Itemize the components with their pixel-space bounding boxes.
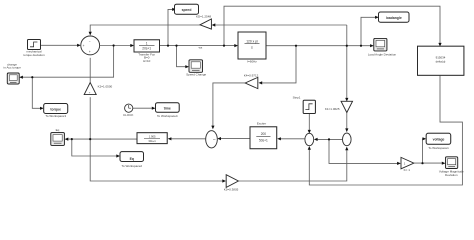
svg-text:CLOCK: CLOCK <box>123 113 133 117</box>
svg-text:voltage: voltage <box>433 138 445 142</box>
svg-text:K= 1: K= 1 <box>404 168 411 172</box>
svg-text:+: + <box>89 50 91 54</box>
svg-text:200: 200 <box>261 132 267 136</box>
svg-text:KD=1.2548: KD=1.2548 <box>196 14 211 18</box>
svg-text:20s+1: 20s+1 <box>142 47 151 51</box>
svg-text:Step1: Step1 <box>293 95 301 99</box>
svg-text:ws: ws <box>199 45 203 49</box>
svg-text:K4=0.9712: K4=0.9712 <box>244 74 259 78</box>
svg-text:30s+1: 30s+1 <box>148 139 156 143</box>
svg-text:Exciter: Exciter <box>257 121 266 125</box>
svg-text:H=10: H=10 <box>143 59 151 63</box>
svg-text:To Workspace2: To Workspace2 <box>121 164 142 168</box>
svg-text:1: 1 <box>146 41 148 45</box>
svg-text:in Acc torque: in Acc torque <box>4 66 22 70</box>
svg-text:Eq: Eq <box>130 157 134 161</box>
svg-text:120 x pi: 120 x pi <box>246 39 258 43</box>
svg-text:To Workspace4: To Workspace4 <box>157 114 178 118</box>
svg-text:1.905: 1.905 <box>149 135 156 139</box>
svg-text:torque deviation: torque deviation <box>23 53 45 57</box>
svg-text:Load Angle Deviation: Load Angle Deviation <box>368 53 397 57</box>
svg-text:loadangle: loadangle <box>386 16 402 20</box>
svg-text:time: time <box>164 106 171 110</box>
svg-text:torque: torque <box>50 107 61 111</box>
svg-text:K1=1.0625: K1=1.0625 <box>325 107 340 111</box>
svg-text:speed: speed <box>182 8 192 12</box>
svg-text:delta(u): delta(u) <box>436 60 446 64</box>
svg-text:K2=1.0500: K2=1.0500 <box>98 85 113 89</box>
svg-text:To Workspace1: To Workspace1 <box>428 146 449 150</box>
svg-text:+: + <box>83 44 85 48</box>
svg-text:K5=0.3805: K5=0.3805 <box>224 188 239 192</box>
svg-text:Deviation: Deviation <box>445 173 458 177</box>
svg-text:−: − <box>89 40 91 44</box>
svg-text:To Workspace3: To Workspace3 <box>45 114 66 118</box>
svg-text:f=60Hz: f=60Hz <box>247 60 257 64</box>
svg-text:Eq: Eq <box>56 128 60 132</box>
svg-text:50s+1: 50s+1 <box>259 138 268 142</box>
svg-text:Speed Change: Speed Change <box>186 72 206 76</box>
